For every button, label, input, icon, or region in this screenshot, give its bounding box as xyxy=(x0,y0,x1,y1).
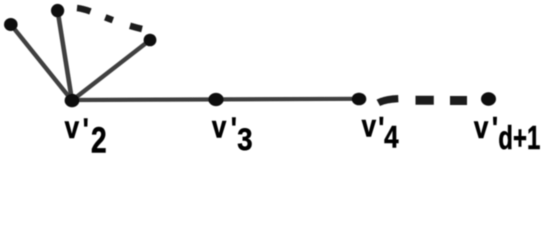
node: right fan vertex xyxy=(144,34,157,47)
svg-text:v: v xyxy=(474,111,488,146)
wire: dashed ellipsis arc between top and right fan vertices xyxy=(77,8,142,29)
wire: dashed ellipsis segment 2 between v'4 and v'd+1 xyxy=(416,96,434,105)
node: vertex v'4 xyxy=(352,93,367,106)
label: v'd+1 xyxy=(474,111,488,146)
svg-text:': ' xyxy=(231,112,237,147)
node: vertex v'd+1 xyxy=(481,92,496,105)
svg-text:v: v xyxy=(212,110,226,145)
node: vertex v'2 xyxy=(65,94,80,107)
wire: dashed ellipsis segment 1 between v'4 and v'd+1 xyxy=(378,99,398,103)
wire: dashed ellipsis segment 3 between v'4 and v'd+1 xyxy=(450,96,467,105)
svg-text:d+1: d+1 xyxy=(498,120,540,157)
svg-text:v: v xyxy=(65,111,79,146)
node: top fan vertex xyxy=(51,4,64,17)
wire: pendant edge from v'2 to leftmost fan vertex xyxy=(11,25,72,101)
svg-text:v: v xyxy=(362,109,376,144)
svg-text:2: 2 xyxy=(91,120,107,158)
wire: pendant edge from v'2 to top fan vertex xyxy=(58,11,72,101)
svg-text:': ' xyxy=(492,112,498,147)
label: v'4 xyxy=(362,109,376,144)
wire: pendant edge from v'2 to right fan vertex xyxy=(72,40,150,101)
label: v'3 xyxy=(212,110,226,145)
wire: path edge from v'2 through v'3 to v'4 xyxy=(72,99,359,100)
label: v'2 xyxy=(65,111,79,146)
svg-text:3: 3 xyxy=(237,122,252,157)
node: vertex v'3 xyxy=(208,93,223,106)
node: leftmost fan vertex xyxy=(4,18,18,31)
svg-text:4: 4 xyxy=(384,121,398,156)
svg-text:': ' xyxy=(83,113,89,148)
